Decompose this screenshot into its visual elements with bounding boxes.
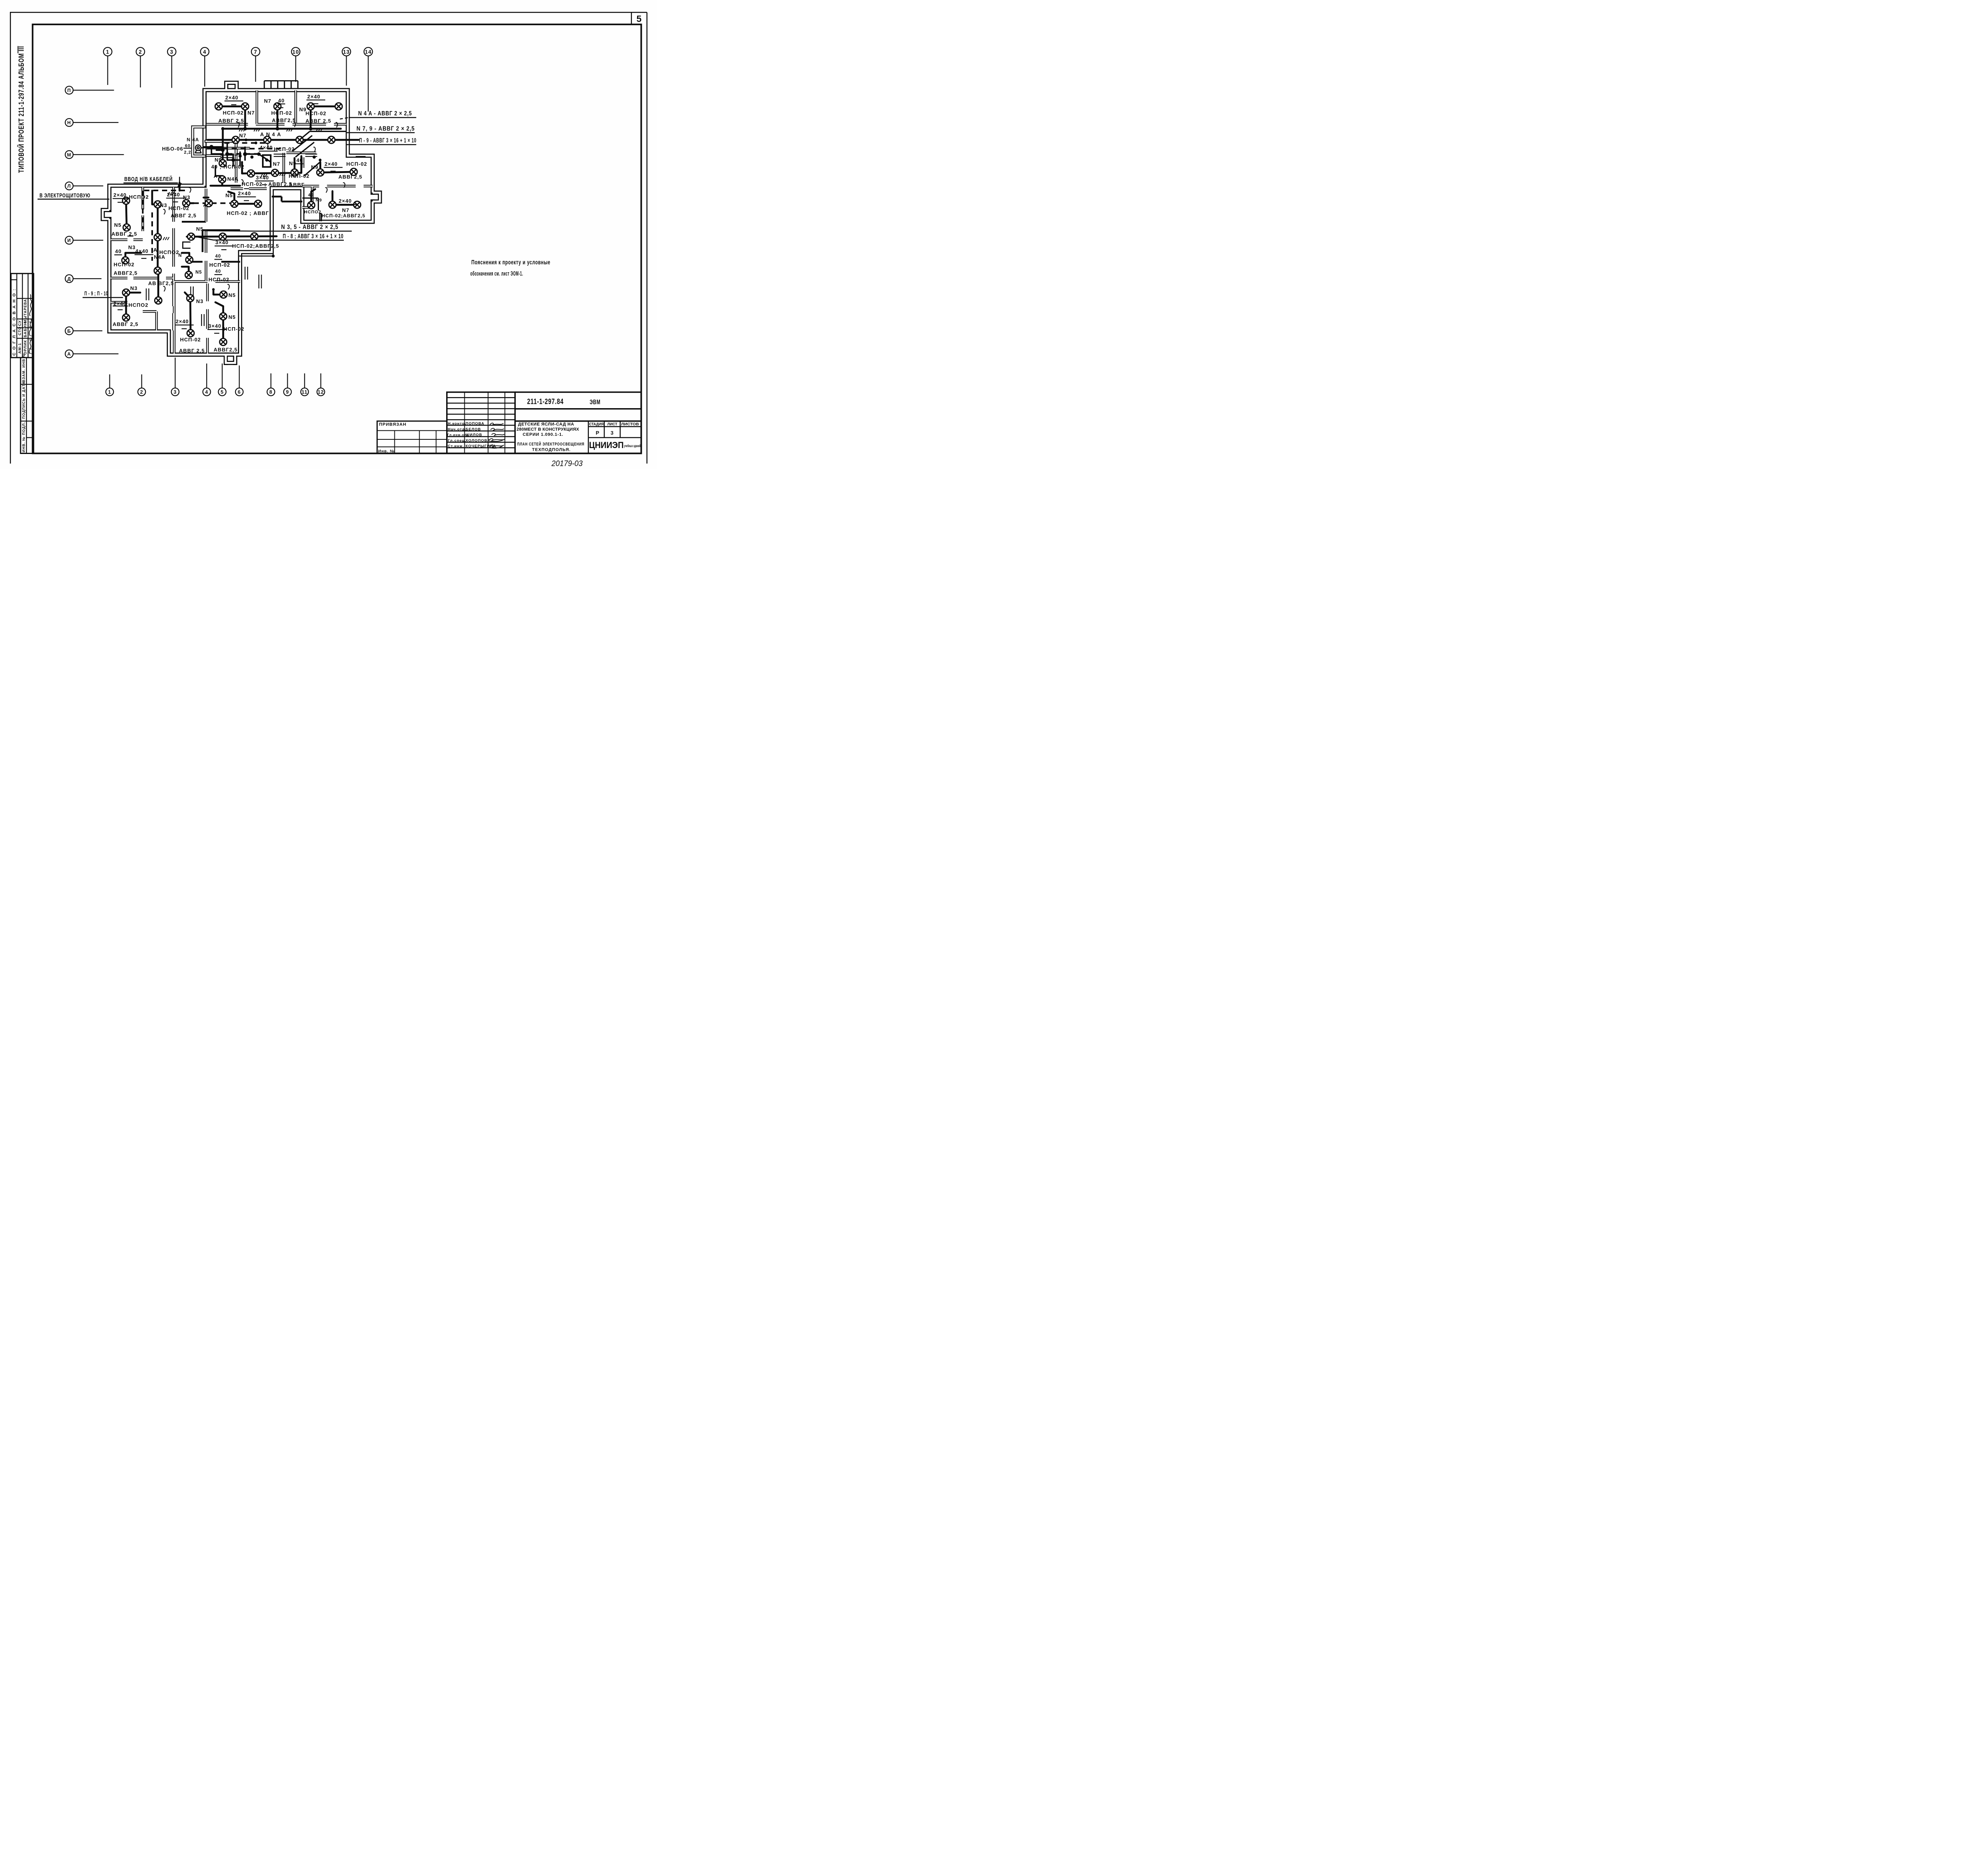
svg-text:N5: N5 bbox=[226, 192, 233, 198]
svg-text:НСП-02: НСП-02 bbox=[223, 110, 244, 116]
interior walls white core bbox=[111, 90, 373, 354]
junction dots bbox=[156, 127, 312, 291]
fraction bars for wattage labels bbox=[113, 100, 357, 333]
lamp N9 room3-b bbox=[335, 103, 342, 110]
svg-text:2×40: 2×40 bbox=[238, 190, 251, 196]
svg-text:А: А bbox=[67, 351, 71, 357]
svg-text:НСП-02 ; АВВГ: НСП-02 ; АВВГ bbox=[227, 210, 269, 216]
svg-text:ПРИВЯЗАН: ПРИВЯЗАН bbox=[379, 422, 407, 427]
svg-text:АВ ВГ2,5: АВ ВГ2,5 bbox=[148, 280, 174, 286]
svg-text:2×40: 2×40 bbox=[225, 94, 238, 100]
svg-text:8: 8 bbox=[270, 389, 273, 395]
NW annex walls (НБО entry) bbox=[193, 127, 236, 156]
svg-text:СТО: СТО bbox=[18, 326, 22, 335]
svg-text:обозначения см. лист ЭОМ-1.: обозначения см. лист ЭОМ-1. bbox=[470, 271, 523, 277]
svg-text:4×40: 4×40 bbox=[136, 248, 149, 254]
svg-text:11: 11 bbox=[302, 389, 307, 395]
center N3 column bbox=[152, 191, 158, 205]
svg-text:3×40: 3×40 bbox=[208, 323, 221, 329]
lamp N5 room-b bbox=[255, 200, 262, 207]
svg-text:40 ; НСП-02: 40 ; НСП-02 bbox=[211, 164, 245, 170]
N9 mid room drop bbox=[213, 154, 295, 173]
svg-text:14: 14 bbox=[365, 49, 371, 55]
svg-text:2×40: 2×40 bbox=[339, 198, 352, 204]
lamp N3 column-4 bbox=[155, 297, 162, 304]
svg-text:СЕРИИ 1.090.1-1.: СЕРИИ 1.090.1-1. bbox=[523, 432, 564, 437]
svg-text:10: 10 bbox=[292, 49, 299, 55]
bottom axis 1 bbox=[106, 388, 114, 396]
svg-text:НСП-02;АВВГ2,5: НСП-02;АВВГ2,5 bbox=[232, 243, 279, 249]
svg-text:АВВГ 2,5: АВВГ 2,5 bbox=[305, 118, 331, 124]
svg-text:N: N bbox=[178, 253, 182, 258]
svg-text:ХОЛОПОВА: ХОЛОПОВА bbox=[466, 439, 490, 443]
shaft box bbox=[263, 155, 271, 167]
svg-text:280МЕСТ В КОНСТРУКЦИЯХ: 280МЕСТ В КОНСТРУКЦИЯХ bbox=[517, 427, 579, 432]
axis 13 bbox=[342, 47, 351, 56]
wiring bbox=[125, 106, 358, 342]
lamp corridor-4 bbox=[328, 136, 335, 143]
lamp N5 corr2-c bbox=[251, 233, 258, 240]
svg-text:3×40: 3×40 bbox=[215, 239, 228, 245]
row axis Б bbox=[65, 327, 73, 335]
svg-text:40: 40 bbox=[115, 249, 121, 254]
axis 3 bbox=[168, 47, 176, 56]
svg-text:В ЭЛЕКТРОЩИТОВУЮ: В ЭЛЕКТРОЩИТОВУЮ bbox=[40, 192, 91, 199]
svg-text:12: 12 bbox=[318, 389, 324, 395]
svg-text:2: 2 bbox=[139, 49, 142, 55]
svg-text:НСП-02: НСП-02 bbox=[224, 326, 245, 332]
svg-text:N 3, 5 - АВВГ 2 × 2,5: N 3, 5 - АВВГ 2 × 2,5 bbox=[281, 224, 338, 231]
svg-text:АВВГ 2,5: АВВГ 2,5 bbox=[171, 213, 196, 218]
lamp N9 right-a bbox=[317, 169, 324, 176]
N4A lamp link bbox=[211, 179, 240, 186]
lamp N7 room1-a bbox=[215, 103, 222, 110]
svg-text:13: 13 bbox=[343, 49, 350, 55]
svg-text:N5: N5 bbox=[196, 270, 202, 275]
svg-text:НСПО2: НСПО2 bbox=[159, 249, 179, 255]
svg-text:НСПО2: НСПО2 bbox=[129, 194, 149, 200]
svg-text:Ст.инж.: Ст.инж. bbox=[448, 444, 464, 448]
hatch marks on wires bbox=[163, 128, 322, 240]
lamp N5 bottom-right-a bbox=[220, 291, 227, 298]
svg-text:Гл.инж.отд: Гл.инж.отд bbox=[447, 433, 469, 437]
central column rooms bbox=[203, 230, 240, 252]
svg-text:2: 2 bbox=[140, 389, 143, 395]
bottom axis 4 bbox=[203, 388, 211, 396]
explanation note bbox=[470, 259, 551, 277]
row axis М bbox=[65, 151, 73, 158]
privyazan strip bbox=[377, 421, 447, 454]
left attribute table (ВЗАМ ИНВ / ПОДПИСЬ) bbox=[21, 358, 34, 454]
svg-text:НСП-02: НСП-02 bbox=[305, 110, 326, 116]
upper block + full exterior loop bbox=[109, 90, 373, 363]
lamp N7 room2 bbox=[274, 103, 281, 110]
svg-text:1: 1 bbox=[108, 389, 111, 395]
svg-text:N9: N9 bbox=[215, 157, 222, 163]
svg-text:Н: Н bbox=[67, 120, 71, 126]
svg-text:АМ-1: АМ-1 bbox=[18, 343, 22, 354]
chimney tab bbox=[226, 83, 237, 90]
lamps bbox=[122, 103, 361, 345]
exterior walls (outer stroke) bbox=[103, 83, 380, 363]
svg-text:А: А bbox=[214, 173, 218, 179]
lamp N3 column-1 bbox=[154, 201, 161, 208]
svg-text:НСПО2: НСПО2 bbox=[128, 302, 148, 308]
svg-text:АВВГ2,5: АВВГ2,5 bbox=[272, 117, 296, 123]
bottom block wires bbox=[185, 292, 191, 333]
lamp N7 right-corr-a bbox=[329, 201, 336, 208]
svg-text:ДЕТСКИЕ ЯСЛИ-САД НА: ДЕТСКИЕ ЯСЛИ-САД НА bbox=[518, 422, 574, 427]
agreement table signatures bbox=[29, 294, 32, 354]
axis 2 bbox=[136, 47, 145, 56]
svg-text:N9: N9 bbox=[289, 160, 296, 166]
lamp N9 stair room bbox=[308, 202, 315, 209]
НБО-06 fixture (double circle) bbox=[195, 145, 207, 153]
lamp N7 room1-b bbox=[241, 103, 249, 110]
svg-text:А: А bbox=[153, 247, 157, 253]
switch hooks bbox=[163, 122, 345, 291]
svg-text:3: 3 bbox=[611, 430, 614, 436]
svg-text:СТАДИЯ: СТАДИЯ bbox=[589, 422, 604, 426]
svg-text:N5: N5 bbox=[114, 222, 122, 228]
interior walls (double) bbox=[111, 90, 373, 354]
inner frame bbox=[33, 24, 641, 454]
small revision grid bbox=[447, 392, 515, 454]
axis 1 bbox=[104, 47, 112, 56]
bottom axis circles bbox=[106, 358, 325, 396]
svg-text:N7: N7 bbox=[273, 161, 281, 167]
sheet number box line bbox=[630, 12, 634, 24]
svg-text:НСП-02: НСП-02 bbox=[271, 110, 292, 116]
svg-text:Гл.спец.: Гл.спец. bbox=[448, 439, 466, 443]
svg-text:ТИПОВОЙ ПРОЕКТ 211-1-297.84 АЛ: ТИПОВОЙ ПРОЕКТ 211-1-297.84 АЛЬБОМ III bbox=[17, 46, 25, 173]
svg-text:N3: N3 bbox=[160, 202, 168, 208]
svg-text:60: 60 bbox=[185, 143, 190, 148]
bottom tab of bottom block bbox=[226, 355, 235, 363]
row axis Д bbox=[65, 275, 73, 283]
lamp N5 bottom-right-b bbox=[220, 313, 227, 320]
svg-text:П - 8 ; АВВГ 3 × 16 + 1 × 10: П - 8 ; АВВГ 3 × 16 + 1 × 10 bbox=[283, 233, 344, 240]
svg-text:ПОПОВА: ПОПОВА bbox=[466, 422, 485, 426]
svg-text:АВВГ 2,5: АВВГ 2,5 bbox=[113, 321, 138, 327]
svg-text:АВВГ 2,5: АВВГ 2,5 bbox=[219, 118, 244, 124]
svg-text:БЕЛОВ: БЕЛОВ bbox=[466, 427, 481, 431]
svg-text:ИНВ. № ПОДЛ.: ИНВ. № ПОДЛ. bbox=[22, 422, 26, 452]
svg-text:Н.контр.: Н.контр. bbox=[448, 422, 466, 426]
C-shaft bbox=[183, 242, 191, 249]
lamp N7 3x40-b bbox=[272, 170, 279, 177]
svg-text:НБО-06: НБО-06 bbox=[162, 146, 183, 152]
lamp N7 corridor-1 bbox=[232, 136, 239, 143]
right block corridor pair bbox=[332, 191, 357, 205]
lamp N3 column-2 bbox=[154, 234, 161, 241]
axis 4 bbox=[200, 47, 209, 56]
room labels bbox=[111, 94, 367, 354]
svg-text:N3: N3 bbox=[128, 245, 136, 251]
svg-text:N7: N7 bbox=[247, 110, 255, 116]
svg-text:Д: Д bbox=[67, 276, 71, 282]
svg-text:НСП-02: НСП-02 bbox=[168, 205, 189, 211]
svg-text:N4A: N4A bbox=[227, 176, 239, 182]
right big cells bbox=[515, 392, 641, 421]
svg-text:N 4 A - АВВГ 2 × 2,5: N 4 A - АВВГ 2 × 2,5 bbox=[358, 110, 412, 117]
svg-text:ОРЛИК: ОРЛИК bbox=[23, 340, 28, 354]
bottom axis 11 bbox=[301, 388, 309, 396]
outer page border bbox=[10, 12, 647, 463]
lamp N3 bottom-a bbox=[187, 295, 194, 302]
mid-south room wires bbox=[182, 253, 189, 275]
svg-text:АВВГ 2,5: АВВГ 2,5 bbox=[111, 231, 137, 237]
axis 7 bbox=[251, 47, 260, 56]
feeder callouts right side bbox=[197, 118, 417, 256]
lamp N3 P9-a bbox=[123, 289, 130, 296]
dashed wires bbox=[143, 143, 281, 261]
mid band partitions bbox=[207, 143, 250, 153]
svg-text:П - 9 - АВВГ 3 × 16 + 1 × 10: П - 9 - АВВГ 3 × 16 + 1 × 10 bbox=[359, 137, 417, 144]
title block bbox=[377, 392, 641, 454]
svg-text:И: И bbox=[67, 238, 71, 243]
svg-text:4×40: 4×40 bbox=[260, 145, 273, 151]
svg-text:АВВГ2,5: АВВГ2,5 bbox=[114, 270, 138, 276]
bottom axis 9 bbox=[284, 388, 292, 396]
right block room pair bbox=[321, 162, 354, 173]
N5 corridor row bbox=[187, 236, 277, 237]
svg-text:НСП-02: НСП-02 bbox=[346, 161, 367, 167]
door lintel marks (thin parallel bars) bbox=[128, 154, 366, 326]
svg-text:С О Г Л А С О В А Н О :: С О Г Л А С О В А Н О : bbox=[12, 288, 17, 356]
signatures in title block bbox=[489, 423, 505, 448]
svg-text:4: 4 bbox=[203, 49, 207, 55]
svg-text:3: 3 bbox=[173, 389, 177, 395]
row axis П bbox=[65, 86, 73, 94]
lamp N3 bottom-b bbox=[187, 330, 194, 337]
svg-text:20179-03: 20179-03 bbox=[551, 460, 583, 468]
lamp N5 corr2-b bbox=[219, 233, 226, 240]
svg-text:40: 40 bbox=[308, 193, 314, 198]
svg-text:N5: N5 bbox=[228, 292, 236, 298]
bottom block bbox=[169, 282, 179, 354]
left row circles bbox=[65, 86, 124, 358]
lamp N4A mid bbox=[219, 176, 226, 183]
right block interior bbox=[302, 181, 373, 191]
svg-text:N7: N7 bbox=[264, 98, 272, 104]
svg-text:2,2: 2,2 bbox=[184, 150, 191, 155]
svg-text:2×40: 2×40 bbox=[307, 94, 321, 100]
dense junction cluster near entry (switch blobs and stub wires) bbox=[204, 143, 271, 176]
svg-text:9: 9 bbox=[286, 389, 289, 395]
lamp N3 column-3 bbox=[154, 267, 161, 274]
svg-text:N7: N7 bbox=[342, 207, 350, 213]
3x40 row bbox=[242, 173, 302, 174]
svg-text:БАБИН: БАБИН bbox=[23, 322, 28, 337]
svg-text:4: 4 bbox=[205, 389, 208, 395]
svg-text:ПОДПИСЬ И ДАТА: ПОДПИСЬ И ДАТА bbox=[22, 381, 26, 419]
lamp N3 top-corr-a bbox=[183, 200, 190, 207]
svg-text:учебных зданий: учебных зданий bbox=[624, 444, 641, 448]
svg-text:ЭВМ: ЭВМ bbox=[590, 399, 601, 406]
row axis Н bbox=[65, 119, 73, 126]
N3 room stub bbox=[125, 253, 141, 260]
svg-text:НСП-02: НСП-02 bbox=[209, 277, 230, 283]
svg-text:П: П bbox=[67, 88, 71, 93]
svg-text:211-1-297.84: 211-1-297.84 bbox=[527, 397, 564, 406]
lamp N3 top-corr-b bbox=[205, 200, 212, 207]
svg-text:N5: N5 bbox=[196, 226, 204, 232]
svg-text:N 7, 9 - АВВГ 2 × 2,5: N 7, 9 - АВВГ 2 × 2,5 bbox=[356, 126, 415, 132]
svg-text:N3: N3 bbox=[130, 285, 138, 291]
svg-text:N7: N7 bbox=[239, 133, 247, 139]
svg-text:N3: N3 bbox=[196, 298, 204, 304]
svg-text:5: 5 bbox=[637, 14, 642, 24]
lamp 3x40-a bbox=[247, 170, 255, 177]
bottom axis 2 bbox=[138, 388, 146, 396]
svg-text:Л: Л bbox=[67, 183, 71, 189]
svg-text:2×40: 2×40 bbox=[176, 318, 189, 324]
svg-text:5: 5 bbox=[221, 389, 224, 395]
svg-text:ЦНИИЭП: ЦНИИЭП bbox=[589, 440, 624, 450]
svg-text:Р: Р bbox=[596, 430, 600, 436]
svg-text:2×40: 2×40 bbox=[324, 161, 338, 167]
bottom axis 6 bbox=[236, 388, 243, 396]
lamp N5 corr2-a bbox=[188, 233, 195, 240]
svg-text:ЛИСТ: ЛИСТ bbox=[607, 422, 618, 426]
lamp corridor-3 bbox=[296, 136, 303, 143]
svg-text:1: 1 bbox=[106, 49, 109, 55]
svg-text:N3: N3 bbox=[183, 194, 190, 200]
svg-text:АВВГ: АВВГ bbox=[289, 182, 305, 188]
svg-text:НСП-02: НСП-02 bbox=[114, 262, 135, 267]
svg-text:НСП-02: НСП-02 bbox=[180, 337, 201, 343]
upper room band divider bbox=[207, 119, 347, 130]
south band of mid section bbox=[231, 184, 267, 194]
svg-text:ПЛАН СЕТЕЙ ЭЛЕКТРООСВЕЩЕНИЯ: ПЛАН СЕТЕЙ ЭЛЕКТРООСВЕЩЕНИЯ bbox=[517, 442, 585, 447]
svg-text:НСП-02: НСП-02 bbox=[289, 173, 310, 179]
lamp N9 mid bbox=[291, 169, 298, 176]
svg-text:3×40: 3×40 bbox=[256, 175, 269, 181]
bottom axis 3 bbox=[172, 388, 179, 396]
right notch bbox=[373, 193, 380, 202]
lamp N7 right-corr-b bbox=[354, 201, 361, 208]
svg-text:40: 40 bbox=[278, 98, 285, 104]
svg-text:НСП-02;АВВГ2,5: НСП-02;АВВГ2,5 bbox=[322, 213, 366, 218]
svg-text:N 4A: N 4A bbox=[187, 137, 199, 143]
top corridor of left block lamps bbox=[186, 200, 194, 207]
bottom axis 5 bbox=[219, 388, 226, 396]
svg-text:ВЗАМ. ИНВ №: ВЗАМ. ИНВ № bbox=[22, 353, 26, 382]
row axis Л bbox=[65, 182, 73, 190]
lamp pair connections upper row bbox=[219, 103, 339, 110]
svg-text:АВВГ 2,5: АВВГ 2,5 bbox=[179, 348, 205, 354]
lamp right-b bbox=[350, 168, 357, 175]
exterior walls (white core) bbox=[103, 83, 380, 363]
bottom axis 8 bbox=[267, 388, 275, 396]
overline over III in album bbox=[17, 46, 20, 54]
row axis А bbox=[65, 350, 73, 358]
upper trunk bbox=[223, 125, 341, 132]
axis 10 bbox=[292, 47, 300, 56]
svg-text:П - 9 ; П - 10: П - 9 ; П - 10 bbox=[85, 290, 108, 297]
svg-text:АВВГ2,5: АВВГ2,5 bbox=[214, 347, 238, 353]
svg-text:М: М bbox=[67, 152, 72, 158]
svg-text:АВВГ2,5: АВВГ2,5 bbox=[338, 174, 362, 180]
svg-text:НСПО2: НСПО2 bbox=[304, 210, 321, 215]
svg-text:6: 6 bbox=[238, 389, 241, 395]
P9/P10 room bbox=[126, 293, 140, 318]
svg-text:А N 4 А: А N 4 А bbox=[260, 132, 281, 137]
lamp N5 west-b bbox=[123, 224, 130, 231]
lamp N5 room-a bbox=[231, 200, 238, 207]
svg-text:N5: N5 bbox=[228, 314, 236, 320]
svg-text:ВВОД Н/В КАБЕЛЕЙ: ВВОД Н/В КАБЕЛЕЙ bbox=[124, 175, 173, 183]
row axis И bbox=[65, 236, 73, 244]
svg-text:СУ: СУ bbox=[18, 320, 22, 326]
entry labels bbox=[40, 175, 173, 297]
lamp N mid-south-a bbox=[186, 256, 193, 264]
roof grille above top wall bbox=[264, 81, 298, 89]
svg-text:ШИЛОВ: ШИЛОВ bbox=[466, 433, 482, 437]
svg-text:Пояснения к проекту и ус: Пояснения к проекту и условные bbox=[471, 259, 551, 266]
lamp N5 west-a bbox=[123, 197, 130, 204]
lamp N3 room 40 bbox=[122, 257, 129, 264]
left block: west room vertical pair bbox=[126, 201, 127, 228]
svg-text:МЫТАРЕВА: МЫТАРЕВА bbox=[23, 299, 27, 323]
left agreement table (СОГЛАСОВАНО) bbox=[11, 273, 34, 358]
svg-text:7: 7 bbox=[254, 49, 257, 55]
left tab bbox=[103, 210, 109, 219]
svg-text:Б: Б bbox=[67, 328, 71, 334]
lamp N4A corridor-2 bbox=[264, 136, 271, 143]
lamp N9 room 40 bbox=[219, 160, 226, 167]
corridor trunk row bbox=[207, 136, 359, 144]
lamp N3 P9-b bbox=[123, 314, 130, 321]
svg-text:N9: N9 bbox=[316, 198, 322, 203]
lamp N5 mid-south-b bbox=[185, 271, 192, 279]
small room walls in right block SW corner bbox=[302, 198, 321, 221]
svg-text:ЛИСТОВ: ЛИСТОВ bbox=[621, 422, 639, 426]
svg-text:2×40: 2×40 bbox=[113, 192, 126, 198]
svg-text:НСП-02 ; АВВГ2,5: НСП-02 ; АВВГ2,5 bbox=[241, 181, 292, 187]
svg-text:40: 40 bbox=[215, 254, 221, 259]
top axis circles bbox=[104, 47, 373, 112]
svg-text:N9: N9 bbox=[311, 164, 319, 170]
svg-text:НСП-02: НСП-02 bbox=[209, 262, 230, 268]
axis 14 bbox=[364, 47, 373, 56]
lamp N9 room3-a bbox=[307, 103, 314, 110]
svg-text:40: 40 bbox=[215, 269, 221, 274]
lamp N5 bottom-right-c bbox=[220, 339, 227, 346]
svg-text:Нач.отд.: Нач.отд. bbox=[448, 427, 466, 431]
svg-text:Инв. №: Инв. № bbox=[378, 449, 395, 454]
svg-text:ТЕХПОДПОЛЬЯ.: ТЕХПОДПОЛЬЯ. bbox=[532, 447, 571, 452]
left block interior bbox=[138, 187, 148, 231]
svg-text:2×40: 2×40 bbox=[167, 192, 180, 198]
bottom axis 12 bbox=[317, 388, 325, 396]
electric room feeder going left bbox=[176, 183, 183, 191]
svg-text:40: 40 bbox=[296, 157, 303, 163]
svg-text:3: 3 bbox=[170, 49, 173, 55]
